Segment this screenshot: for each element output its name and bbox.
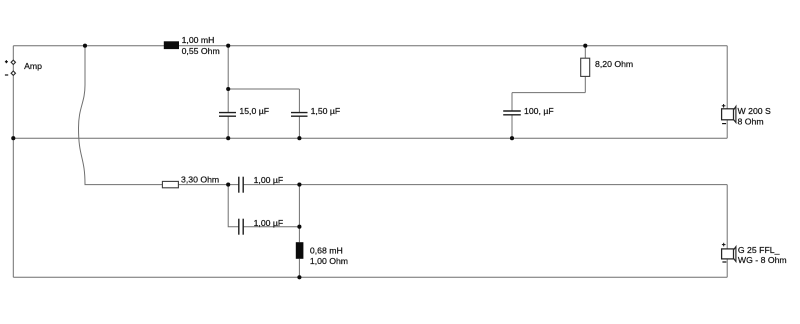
wire C5 to node B2	[243, 226, 299, 228]
node dot rail2 x228	[226, 136, 230, 140]
svg-text:15,0 µF: 15,0 µF	[239, 106, 269, 116]
wire branch A to B	[228, 88, 299, 90]
wire lower rail R1 to C4	[178, 184, 238, 186]
wire R2 top feed	[584, 46, 586, 59]
svg-text:1,00 µF: 1,00 µF	[254, 218, 284, 228]
svg-text:Amp: Amp	[24, 61, 42, 71]
speaker U2 minus mark	[722, 261, 726, 263]
resistor R1 3,30 Ohm	[162, 181, 178, 187]
wire L2 bottom feed	[298, 259, 300, 278]
amp minus sign	[5, 74, 8, 76]
svg-text:1,00 Ohm: 1,00 Ohm	[310, 256, 348, 266]
capacitor C1 15,0 uF plates	[219, 113, 236, 117]
svg-text:1,50 µF: 1,50 µF	[311, 106, 341, 116]
speaker U2 G 25 FFL box	[722, 249, 734, 259]
speaker U2 cone	[734, 247, 736, 262]
wire L2 top feed	[298, 185, 300, 243]
svg-text:1,00 mH: 1,00 mH	[182, 35, 215, 45]
node dot C5 branch x299	[297, 225, 301, 229]
speaker U1 minus mark	[722, 123, 726, 125]
svg-text:0,68 mH: 0,68 mH	[310, 245, 343, 255]
svg-text:W 200 S: W 200 S	[738, 106, 772, 116]
svg-text:WG - 8 Ohm: WG - 8 Ohm	[738, 255, 787, 265]
svg-text:8 Ohm: 8 Ohm	[738, 117, 764, 127]
wire return rail (-)	[13, 137, 727, 139]
svg-text:100, µF: 100, µF	[524, 106, 554, 116]
node dot rail1 x585	[583, 44, 587, 48]
speaker U1 plus mark	[722, 104, 726, 108]
wire C1 bottom feed	[227, 116, 229, 138]
wire C3 bottom feed	[511, 115, 513, 138]
wire lower rail C4 to right end	[243, 184, 727, 186]
speaker U1 cone	[734, 106, 736, 122]
wire C2 bottom feed	[298, 116, 300, 138]
node dot branch A	[226, 87, 230, 91]
wire node A down	[227, 46, 229, 89]
wire C3 top feed	[511, 93, 513, 111]
wire R2 bottom feed	[584, 76, 586, 92]
wire G25 feed down	[726, 185, 728, 249]
svg-text:1,00 µF: 1,00 µF	[254, 175, 284, 185]
wire A2 down to C5 branch	[228, 185, 239, 227]
capacitor C3 100 uF plates	[503, 111, 521, 115]
amp plus sign	[5, 60, 8, 63]
svg-text:8,20 Ohm: 8,20 Ohm	[595, 59, 633, 69]
svg-text:G 25 FFL_: G 25 FFL_	[738, 245, 780, 255]
capacitor C4 1,00 uF plates	[239, 177, 243, 193]
svg-text:0,55 Ohm: 0,55 Ohm	[182, 46, 220, 56]
wire C1 top feed	[227, 89, 229, 113]
node dot rail1 x228	[226, 44, 230, 48]
node dot rail3 x228	[226, 183, 230, 187]
amp plus terminal diamond	[11, 60, 15, 64]
wire curved tap from node to lower section	[79, 46, 163, 185]
wire right drop to W200S plus	[726, 46, 728, 109]
node dot rail2 x299	[297, 136, 301, 140]
speaker U1 W 200 S box	[722, 109, 734, 120]
wire bottom rail	[13, 276, 727, 278]
node dot rail2 x512	[510, 136, 514, 140]
resistor R2 8,20 Ohm	[581, 58, 590, 76]
node dot rail1 x85	[83, 44, 87, 48]
capacitor C5 1,00 uF plates	[239, 219, 243, 235]
wire top rail (+)	[13, 45, 727, 47]
capacitor C2 1,50 uF plates	[291, 113, 308, 117]
node dot rail4 x299	[297, 275, 301, 279]
amp minus terminal diamond	[11, 71, 15, 75]
inductor L2 0,68 mH	[296, 242, 304, 259]
node dot rail3 x299	[297, 183, 301, 187]
wire R2 to C3 horizontal	[512, 92, 585, 94]
wire W200S minus to return rail	[726, 120, 728, 138]
speaker U2 plus mark	[722, 243, 726, 247]
node dot rail2 x13	[11, 136, 15, 140]
wire C2 top feed	[298, 89, 300, 113]
inductor L1 1,00 mH	[164, 41, 179, 49]
wire G25 minus down	[726, 259, 728, 277]
wire left rail from amp	[12, 46, 14, 278]
svg-text:3,30 Ohm: 3,30 Ohm	[181, 174, 219, 184]
